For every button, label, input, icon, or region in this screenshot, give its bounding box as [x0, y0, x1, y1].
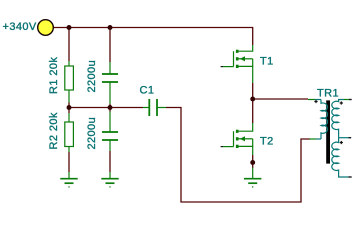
- power node +340V yellow terminal: [38, 20, 54, 36]
- wire T2 source to ground: [252, 155, 254, 168]
- T2 body lead with arrow: [239, 138, 253, 140]
- svg-text:C1: C1: [140, 85, 155, 97]
- TR1 polarity mark primary: [314, 100, 317, 103]
- junction dot middle rail at cap divider: [108, 105, 113, 110]
- T2 drain lead: [239, 123, 253, 131]
- ground under T2: [244, 168, 261, 187]
- wire cap1 branch vertical: [109, 28, 111, 63]
- T1 source lead: [239, 66, 253, 83]
- svg-text:2200u: 2200u: [86, 117, 98, 150]
- svg-text:2200u: 2200u: [86, 60, 98, 93]
- svg-text:+340V: +340V: [3, 21, 37, 33]
- wire cap1 bottom to middle rail: [109, 104, 111, 108]
- T1 gate lead: [223, 66, 234, 68]
- wire half-bridge node to transformer primary top: [253, 98, 308, 100]
- TR1 polarity mark secondary top: [340, 101, 343, 104]
- MOSFET T2: [221, 123, 253, 155]
- TR1 secondary top winding: [332, 100, 344, 138]
- wire R1 branch vertical: [68, 28, 70, 62]
- resistor R2 body: [65, 113, 74, 152]
- T2 body-source tie: [252, 139, 254, 147]
- wire top rail +340V to T1 drain: [46, 28, 253, 46]
- TR1 secondary top pin: [344, 99, 349, 101]
- T1 channel segments: [236, 50, 239, 53]
- TR1 polarity mark secondary bottom: [340, 141, 343, 144]
- junction dot top rail at R1 branch: [67, 25, 72, 30]
- capacitor C1: [143, 99, 166, 116]
- T1 gate plate: [233, 51, 235, 66]
- T2 channel segments: [236, 130, 239, 133]
- wire middle rail to cap2 top: [109, 108, 111, 112]
- svg-text:TR1: TR1: [317, 88, 339, 100]
- svg-text:T2: T2: [260, 136, 274, 148]
- svg-text:T1: T1: [260, 56, 274, 68]
- wire middle rail to C1: [69, 107, 143, 109]
- TR1 secondary tap pin: [339, 137, 349, 139]
- junction dot T2 source node: [250, 160, 255, 165]
- TR1 primary bottom pin: [316, 138, 321, 140]
- wire cap2 bottom to ground: [109, 151, 111, 172]
- TR1 pin end tips: [349, 99, 352, 101]
- T1 body lead with arrow: [239, 58, 253, 60]
- wire T1 source to half-bridge node: [252, 83, 254, 99]
- TR1 primary top pin: [315, 99, 321, 101]
- wire middle rail to R2 top: [68, 108, 70, 114]
- transformer TR1: [308, 100, 352, 178]
- capacitor 2200u upper: [102, 62, 118, 104]
- T2 gate lead: [223, 146, 234, 148]
- capacitor 2200u lower: [102, 112, 118, 152]
- wire R2 bottom to ground: [68, 152, 70, 172]
- wire half-bridge node to T2 drain: [252, 99, 254, 123]
- TR1 primary winding: [321, 100, 327, 140]
- resistor R1 body: [65, 61, 74, 103]
- T2 source lead: [239, 146, 253, 155]
- junction dot middle rail at R divider: [67, 105, 72, 110]
- junction dot half-bridge midpoint: [250, 97, 255, 102]
- T1 body-source tie: [252, 59, 254, 67]
- wire R1 bottom to middle rail: [68, 103, 70, 108]
- ground under cap2: [101, 172, 118, 187]
- ground under R2: [60, 172, 77, 187]
- T1 drain lead: [239, 45, 253, 51]
- TR1 secondary bottom winding: [332, 138, 349, 177]
- svg-text:R1 20k: R1 20k: [48, 57, 60, 94]
- junction dot top rail at cap1 branch: [108, 25, 113, 30]
- T2 gate plate: [233, 131, 235, 146]
- MOSFET T1: [221, 45, 253, 83]
- TR1 core: [326, 100, 330, 163]
- svg-text:R2 20k: R2 20k: [48, 112, 60, 149]
- wire C1 right to bottom rail to transformer primary: [166, 108, 310, 203]
